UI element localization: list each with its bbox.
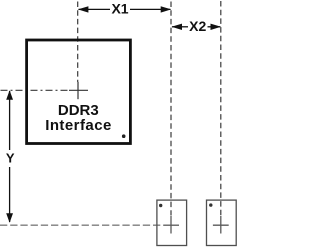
SDRAM chip U1 center cross (163, 216, 179, 234)
svg-text:X2: X2 (189, 18, 206, 34)
svg-text:X1: X1 (111, 0, 128, 16)
SDRAM chip U1 outline (157, 200, 187, 245)
centerline of DDR3 interface IC (horizontal) (1, 89, 70, 91)
dimension X2 arrow (172, 24, 222, 30)
SDRAM chip U2 pin-1 dot (209, 203, 212, 206)
DDR3 interface IC outline (27, 40, 131, 144)
centerline of DDR3 interface IC (vertical) (77, 2, 79, 83)
DDR3 interface IC pin-1 dot (122, 134, 126, 138)
centerline of SDRAM chip U1 (vertical) (170, 2, 172, 216)
centerline of SDRAM chip U2 (vertical) (220, 1, 222, 216)
svg-text:Y: Y (6, 151, 15, 166)
DDR3 interface IC center cross (69, 82, 88, 99)
SDRAM chip U2 outline (207, 200, 237, 245)
SDRAM chip U2 center cross (213, 216, 229, 234)
dimension X1 arrow (78, 6, 171, 12)
SDRAM chip U1 pin-1 dot (159, 204, 162, 207)
svg-text:Interface: Interface (45, 117, 112, 134)
dimension Y arrow (6, 90, 13, 223)
centerline of SDRAM chips (horizontal, bottom) (0, 224, 163, 226)
